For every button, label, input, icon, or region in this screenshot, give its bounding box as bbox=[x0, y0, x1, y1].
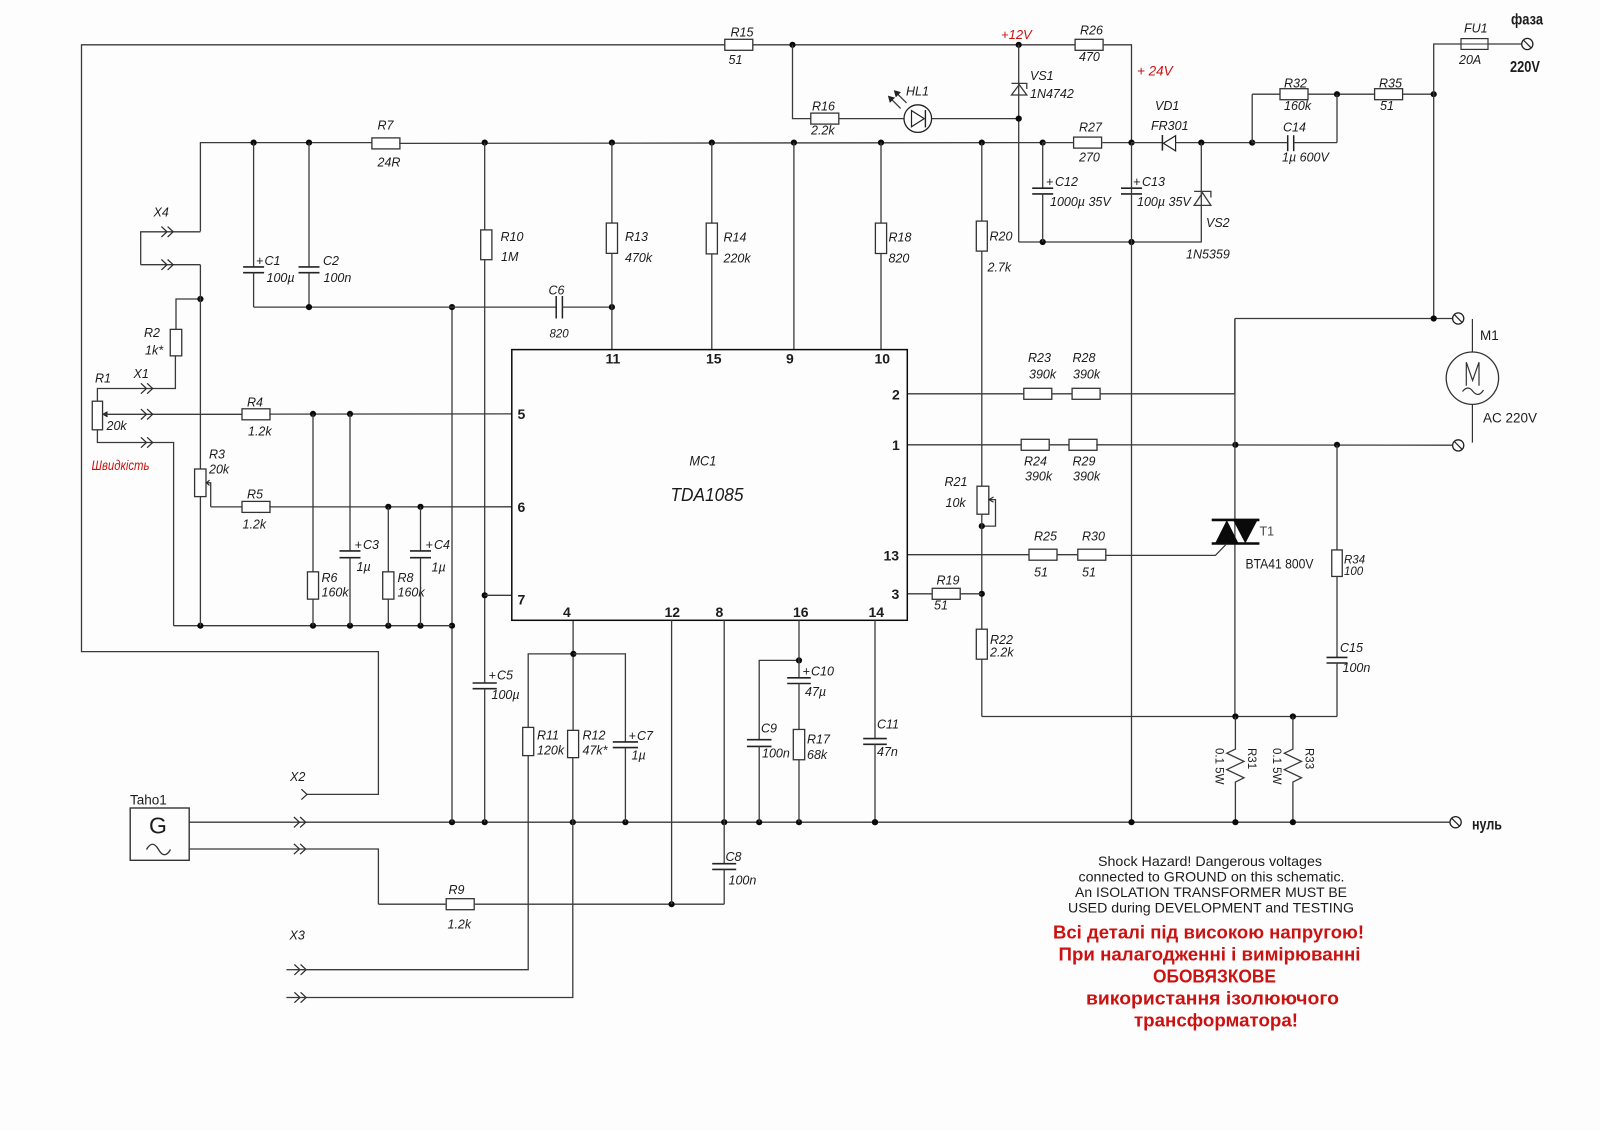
svg-text:USED during DEVELOPMENT and TE: USED during DEVELOPMENT and TESTING bbox=[1068, 900, 1354, 916]
svg-text:C2: C2 bbox=[323, 254, 339, 268]
svg-text:Taho1: Taho1 bbox=[130, 793, 167, 808]
svg-text:R35: R35 bbox=[1379, 77, 1402, 91]
wire R10 column top bbox=[484, 143, 486, 230]
connector R1 tap arrows bbox=[141, 409, 153, 419]
wire C13 long column bbox=[1131, 143, 1133, 823]
svg-text:VS2: VS2 bbox=[1206, 216, 1230, 230]
connector R1 bottom arrows bbox=[141, 437, 153, 447]
resistor R6 bbox=[307, 414, 349, 626]
svg-text:G: G bbox=[149, 813, 167, 839]
svg-text:R8: R8 bbox=[398, 571, 414, 585]
wire R12 top to pin 4 bbox=[572, 620, 574, 730]
label X2 wire bbox=[0, 0, 1, 1]
node junction R19/R22 bbox=[979, 591, 985, 597]
node rail junction R18 bbox=[878, 140, 884, 146]
connector X1 arrows bbox=[133, 367, 153, 394]
svg-text:68k: 68k bbox=[807, 748, 828, 762]
svg-text:C8: C8 bbox=[726, 850, 742, 864]
svg-text:100n: 100n bbox=[324, 271, 352, 285]
svg-text:1000µ 35V: 1000µ 35V bbox=[1050, 195, 1112, 209]
node junction C4 top bbox=[417, 504, 423, 510]
svg-text:+12V: +12V bbox=[1001, 27, 1033, 42]
capacitor C7 bbox=[613, 729, 654, 822]
resistor R12 bbox=[568, 729, 609, 758]
resistor R24 bbox=[1021, 439, 1053, 483]
svg-text:12: 12 bbox=[665, 604, 681, 620]
svg-text:120k: 120k bbox=[537, 744, 565, 758]
svg-text:5: 5 bbox=[518, 406, 526, 422]
svg-text:+: + bbox=[426, 538, 433, 552]
wire C9 top bracket bbox=[759, 660, 799, 739]
wire pin 8 column bbox=[723, 620, 725, 822]
node нуль junction x452 bbox=[449, 819, 455, 825]
svg-text:220V: 220V bbox=[1510, 59, 1541, 76]
svg-text:MC1: MC1 bbox=[689, 452, 716, 468]
svg-text:T1: T1 bbox=[1260, 525, 1275, 539]
svg-text:R9: R9 bbox=[449, 883, 465, 897]
svg-text:R23: R23 bbox=[1028, 351, 1051, 365]
svg-text:При налагодженні і вимірюванні: При налагодженні і вимірюванні bbox=[1059, 945, 1361, 965]
svg-text:Швидкість: Швидкість bbox=[92, 457, 150, 473]
svg-text:VD1: VD1 bbox=[1155, 99, 1179, 113]
wire VS2 column bbox=[1200, 143, 1202, 242]
svg-text:An ISOLATION TRANSFORMER MUST: An ISOLATION TRANSFORMER MUST BE bbox=[1075, 884, 1347, 900]
wire R3 tap to R5 bbox=[211, 506, 243, 508]
svg-text:R15: R15 bbox=[731, 26, 754, 40]
wire R11 top to pin4 row bbox=[528, 654, 573, 728]
svg-text:M1: M1 bbox=[1480, 328, 1499, 343]
wire R2 top lead bbox=[176, 299, 200, 329]
capacitor C9 bbox=[747, 722, 790, 823]
connector X4 arrows row2 bbox=[161, 260, 173, 270]
resistor R28 bbox=[1072, 351, 1101, 399]
label Швидкість bbox=[92, 457, 150, 473]
capacitor C1 bbox=[243, 143, 294, 308]
svg-text:11: 11 bbox=[606, 351, 621, 367]
connector X2 arrow bbox=[289, 770, 307, 800]
wire X3 row2 to R12 bbox=[294, 758, 573, 998]
node junction +12V bbox=[1016, 42, 1022, 48]
wire R19 to R22 column bbox=[961, 593, 982, 595]
resistor R23 bbox=[1024, 351, 1057, 399]
node rail junction R13 bbox=[609, 140, 615, 146]
svg-text:R19: R19 bbox=[937, 574, 960, 588]
svg-text:100µ: 100µ bbox=[267, 271, 295, 285]
svg-text:+: + bbox=[256, 254, 263, 268]
node row625 junction R6 bbox=[310, 623, 316, 629]
node junction R2/R3 column bbox=[197, 296, 203, 302]
node rail junction R20 bbox=[979, 140, 985, 146]
resistor R9 bbox=[446, 883, 474, 932]
node junction C2 bottom bbox=[306, 304, 312, 310]
svg-text:51: 51 bbox=[729, 53, 743, 67]
resistor R8 bbox=[383, 507, 426, 626]
svg-text:1µ 600V: 1µ 600V bbox=[1282, 151, 1330, 165]
svg-text:1µ: 1µ bbox=[632, 749, 646, 763]
wire R34 column top bbox=[1336, 445, 1338, 550]
svg-text:160k: 160k bbox=[322, 586, 350, 600]
svg-text:1M: 1M bbox=[501, 250, 519, 264]
wire R28 to motor column bbox=[1100, 319, 1235, 394]
wire X2 net: left border frame bbox=[82, 45, 725, 795]
svg-text:R28: R28 bbox=[1073, 351, 1096, 365]
svg-text:R10: R10 bbox=[501, 230, 524, 244]
svg-text:220k: 220k bbox=[723, 252, 752, 266]
svg-text:+: + bbox=[355, 538, 362, 552]
svg-text:C15: C15 bbox=[1340, 641, 1363, 655]
svg-text:використання ізолюючого: використання ізолюючого bbox=[1086, 989, 1339, 1009]
svg-text:820: 820 bbox=[889, 252, 910, 266]
node нуль junction C7 bbox=[622, 819, 628, 825]
svg-text:390k: 390k bbox=[1073, 368, 1101, 382]
wire pin 13 row bbox=[907, 554, 1029, 556]
svg-text:R29: R29 bbox=[1073, 455, 1096, 469]
wire R21 to R19 junction bbox=[981, 514, 983, 629]
wire C1-C2 bottom row to C6 bbox=[254, 306, 557, 308]
svg-text:+: + bbox=[629, 729, 636, 743]
node +12V label bbox=[1001, 27, 1033, 42]
svg-text:100: 100 bbox=[1344, 566, 1364, 578]
wire HL1 to VS1 column bbox=[932, 118, 1019, 120]
svg-text:51: 51 bbox=[934, 599, 948, 613]
resistor R7 bbox=[372, 119, 401, 170]
svg-text:51: 51 bbox=[1380, 99, 1394, 113]
wire R16 to HL1 bbox=[839, 118, 905, 120]
svg-text:1µ: 1µ bbox=[432, 561, 446, 575]
svg-text:AC 220V: AC 220V bbox=[1483, 411, 1537, 426]
wire R20 to R21 bbox=[981, 251, 983, 487]
svg-text:R16: R16 bbox=[812, 100, 835, 114]
node junction triac/pin1 bbox=[1232, 442, 1238, 448]
node junction нуль/pin14 bbox=[872, 819, 878, 825]
svg-text:1.2k: 1.2k bbox=[243, 518, 267, 532]
wire main rail right segment bbox=[399, 142, 1042, 145]
terminal фаза bbox=[1522, 38, 1533, 49]
motor M1 bbox=[1446, 319, 1499, 443]
terminal нуль bbox=[1450, 817, 1461, 828]
svg-text:R14: R14 bbox=[724, 231, 747, 245]
svg-text:100n: 100n bbox=[1343, 661, 1371, 675]
node junction C13 bottom bbox=[1128, 239, 1134, 245]
capacitor C14 bbox=[1252, 94, 1337, 164]
wire VS1 column bbox=[1018, 45, 1020, 242]
capacitor C2 bbox=[299, 143, 352, 308]
svg-text:160k: 160k bbox=[398, 586, 426, 600]
wire R9 to C8 bottom bbox=[475, 903, 724, 905]
svg-text:R27: R27 bbox=[1079, 121, 1103, 135]
zener VS1 bbox=[1012, 69, 1074, 101]
resistor R30 bbox=[1078, 530, 1106, 580]
wire pin 2 row bbox=[907, 393, 1023, 395]
wire R27 to C13 column bbox=[1102, 142, 1131, 144]
label AC 220V bbox=[1483, 411, 1537, 426]
connector X3 arrow 2 bbox=[286, 992, 306, 1002]
node нуль junction pin8 bbox=[721, 819, 727, 825]
svg-text:R2: R2 bbox=[144, 326, 160, 340]
svg-text:100µ 35V: 100µ 35V bbox=[1137, 195, 1192, 209]
node junction C6/R13 column bbox=[609, 304, 615, 310]
svg-text:C13: C13 bbox=[1142, 175, 1165, 189]
connector X3 arrow 1 bbox=[286, 965, 306, 975]
wire pin 7 stub bbox=[485, 594, 512, 596]
resistor R10 bbox=[481, 230, 524, 264]
svg-text:6: 6 bbox=[518, 499, 526, 515]
svg-text:TDA1085: TDA1085 bbox=[671, 484, 745, 505]
svg-text:ОБОВЯЗКОВЕ: ОБОВЯЗКОВЕ bbox=[1153, 967, 1276, 987]
wire +12V/+24V bottom rail y242 bbox=[1019, 241, 1202, 243]
svg-text:13: 13 bbox=[884, 548, 900, 564]
svg-text:FR301: FR301 bbox=[1151, 119, 1189, 133]
svg-text:+ 24V: + 24V bbox=[1137, 64, 1175, 79]
generator Taho1 bbox=[130, 793, 189, 861]
wire main rail left segment bbox=[200, 143, 372, 232]
capacitor C6 bbox=[549, 284, 612, 341]
resistor R4 bbox=[242, 396, 272, 439]
wire reference column x452 bbox=[451, 307, 453, 822]
svg-text:16: 16 bbox=[793, 604, 809, 620]
svg-text:9: 9 bbox=[786, 351, 794, 367]
svg-text:100µ: 100µ bbox=[492, 688, 520, 702]
node junction pin 7 bbox=[482, 592, 488, 598]
node junction C3 top bbox=[347, 411, 353, 417]
resistor R18 bbox=[875, 143, 911, 350]
svg-text:Shock Hazard! Dangerous voltag: Shock Hazard! Dangerous voltages bbox=[1098, 853, 1322, 869]
node row625 junction R8 bbox=[385, 623, 391, 629]
wire R20 column top bbox=[981, 143, 983, 222]
svg-text:C11: C11 bbox=[877, 718, 899, 732]
label X4 bbox=[153, 206, 169, 220]
wire R17 to нуль row bbox=[798, 760, 800, 823]
wire C15 to bottom row bbox=[1336, 663, 1338, 717]
wire R1 tap row (pin5 net left) bbox=[103, 413, 243, 415]
node junction pin4 row bbox=[570, 651, 576, 657]
wire tacho to R9 bbox=[378, 903, 445, 905]
svg-text:R13: R13 bbox=[625, 230, 648, 244]
svg-text:1k*: 1k* bbox=[145, 344, 164, 358]
node нуль junction C13col bbox=[1128, 819, 1134, 825]
svg-text:2: 2 bbox=[892, 387, 900, 403]
node junction x452/C6 row bbox=[449, 304, 455, 310]
resistor R31 0.1 5W bbox=[1213, 717, 1258, 823]
svg-text:7: 7 bbox=[518, 592, 526, 608]
svg-text:C7: C7 bbox=[637, 729, 654, 743]
svg-text:X4: X4 bbox=[153, 206, 169, 220]
svg-text:20A: 20A bbox=[1458, 53, 1481, 67]
svg-text:8: 8 bbox=[716, 604, 724, 620]
svg-text:R26: R26 bbox=[1080, 24, 1103, 38]
label нуль bbox=[1472, 817, 1502, 834]
svg-text:14: 14 bbox=[869, 604, 885, 620]
node junction C9/pin16 bbox=[796, 657, 802, 663]
node нуль junction C11 bbox=[872, 819, 878, 825]
svg-text:R4: R4 bbox=[247, 396, 263, 410]
wire fuse to phase terminal bbox=[1488, 43, 1522, 45]
svg-text:C9: C9 bbox=[761, 722, 777, 736]
svg-text:1.2k: 1.2k bbox=[448, 918, 472, 932]
node rail junction C1 bbox=[251, 140, 257, 146]
ic MC1 TDA1085 bbox=[512, 350, 908, 621]
capacitor C5 bbox=[473, 669, 520, 823]
resistor R19 bbox=[932, 574, 960, 613]
wire X4 pin2 row bbox=[141, 264, 201, 266]
svg-text:390k: 390k bbox=[1073, 470, 1101, 484]
svg-text:24R: 24R bbox=[377, 156, 401, 170]
capacitor C15 bbox=[1327, 641, 1371, 675]
resistor R17 bbox=[793, 729, 831, 762]
svg-text:R32: R32 bbox=[1284, 77, 1307, 91]
node junction x452/row625 bbox=[449, 623, 455, 629]
wire C12 node to R27 bbox=[1043, 142, 1073, 144]
svg-text:VS1: VS1 bbox=[1030, 69, 1054, 83]
svg-text:270: 270 bbox=[1078, 151, 1100, 165]
wire C10 to R17 bbox=[798, 684, 800, 730]
resistor R5 bbox=[242, 488, 270, 532]
wire pin 1 row right bbox=[1096, 444, 1452, 446]
wire R26 right to corner down bbox=[1104, 45, 1132, 143]
svg-text:R24: R24 bbox=[1024, 455, 1047, 469]
wire pin 3 row bbox=[907, 593, 932, 595]
svg-text:R30: R30 bbox=[1082, 530, 1105, 544]
svg-text:+: + bbox=[1133, 175, 1140, 189]
svg-text:51: 51 bbox=[1034, 566, 1048, 580]
svg-text:0.1 5W: 0.1 5W bbox=[1213, 748, 1225, 785]
node junction R35/fuse column bbox=[1431, 91, 1437, 97]
wire pin 16 column top bbox=[798, 620, 800, 677]
resistor R22 bbox=[976, 629, 1014, 659]
svg-text:X3: X3 bbox=[289, 929, 305, 943]
svg-text:BTA41 800V: BTA41 800V bbox=[1246, 557, 1314, 572]
svg-text:C6: C6 bbox=[549, 284, 565, 298]
wire R5 to pin 6 bbox=[269, 506, 512, 508]
node junction R27/C13 bbox=[1128, 140, 1134, 146]
potentiometer R1 bbox=[92, 372, 127, 434]
resistor R27 bbox=[1074, 121, 1103, 165]
svg-text:1N4742: 1N4742 bbox=[1030, 87, 1074, 101]
svg-text:трансформатора!: трансформатора! bbox=[1134, 1011, 1298, 1031]
svg-text:R3: R3 bbox=[209, 448, 225, 462]
node junction R6 top bbox=[310, 411, 316, 417]
label red warning bbox=[1053, 923, 1364, 1031]
node +24V label bbox=[1137, 64, 1175, 79]
svg-text:X2: X2 bbox=[289, 770, 305, 784]
wire motor top row bbox=[1235, 318, 1453, 320]
capacitor C10 bbox=[787, 665, 834, 700]
wire R15 junction down to R16 bbox=[793, 45, 812, 119]
svg-text:R1: R1 bbox=[95, 372, 111, 386]
svg-text:160k: 160k bbox=[1284, 99, 1312, 113]
node row625 junction C4 bbox=[417, 623, 423, 629]
node нуль junction R33 bbox=[1290, 819, 1296, 825]
svg-text:R33: R33 bbox=[1303, 748, 1315, 769]
wire R3 to row625 bbox=[199, 497, 201, 626]
resistor R35 bbox=[1375, 77, 1403, 114]
label X3 bbox=[289, 929, 305, 943]
wire R1 bottom lead bbox=[97, 430, 173, 626]
capacitor C12 bbox=[1032, 143, 1112, 242]
svg-text:1: 1 bbox=[892, 437, 900, 453]
node junction HL1/VS1 bbox=[1016, 116, 1022, 122]
svg-text:R18: R18 bbox=[889, 231, 912, 245]
svg-text:820: 820 bbox=[550, 329, 570, 341]
wire X4 pin1 row bbox=[141, 232, 201, 265]
node junction R32/C14 right bbox=[1334, 91, 1340, 97]
resistor R34 bbox=[1332, 550, 1365, 578]
svg-text:51: 51 bbox=[1082, 566, 1096, 580]
wire C13 node to VD1 bbox=[1132, 142, 1163, 144]
resistor R16 bbox=[810, 100, 839, 138]
node junction R8 top bbox=[385, 504, 391, 510]
resistor R33 0.1 5W bbox=[1270, 717, 1315, 823]
wire C14 bracket left bbox=[1251, 94, 1253, 142]
svg-text:R6: R6 bbox=[322, 571, 338, 585]
svg-text:390k: 390k bbox=[1025, 470, 1053, 484]
svg-text:C5: C5 bbox=[497, 669, 513, 683]
wire snubber bottom row bbox=[982, 716, 1337, 718]
node junction R34/pin1 bbox=[1334, 442, 1340, 448]
svg-text:FU1: FU1 bbox=[1464, 22, 1488, 36]
wire R24 to R29 bbox=[1049, 444, 1070, 446]
svg-text:Всі деталі під високою напруго: Всі деталі під високою напругою! bbox=[1053, 923, 1364, 943]
svg-text:470: 470 bbox=[1079, 50, 1100, 64]
label фаза bbox=[1511, 12, 1543, 29]
svg-text:+: + bbox=[489, 669, 496, 683]
svg-text:C14: C14 bbox=[1283, 121, 1306, 135]
zener VS2 bbox=[1186, 191, 1230, 261]
wire R32 to R35 bbox=[1308, 93, 1375, 95]
node нуль junction R12 bbox=[570, 819, 576, 825]
svg-text:20k: 20k bbox=[106, 419, 128, 433]
wire X4 to R3 bbox=[199, 265, 201, 469]
svg-text:1N5359: 1N5359 bbox=[1186, 248, 1230, 262]
triac T1 BTA41 bbox=[1212, 520, 1314, 572]
wire R4 to pin 5 bbox=[269, 413, 512, 415]
svg-text:C4: C4 bbox=[434, 538, 450, 552]
svg-text:20k: 20k bbox=[208, 463, 230, 477]
wire +12V top rail (R15 right to R26 left) bbox=[753, 44, 1075, 46]
svg-text:X1: X1 bbox=[133, 367, 149, 381]
svg-text:C10: C10 bbox=[811, 665, 834, 679]
svg-text:R20: R20 bbox=[990, 230, 1013, 244]
wire нуль row bbox=[189, 821, 1450, 823]
wire pin 9 column bbox=[793, 143, 795, 350]
svg-text:390k: 390k bbox=[1029, 368, 1057, 382]
wire R10 to C5 bbox=[484, 260, 486, 683]
resistor R2 bbox=[144, 326, 182, 358]
led HL1 bbox=[889, 85, 932, 133]
resistor R14 bbox=[706, 143, 751, 350]
svg-text:2.7k: 2.7k bbox=[987, 261, 1012, 275]
wire pin 1 row left bbox=[907, 444, 1021, 446]
node junction pin12/R9 row bbox=[669, 901, 675, 907]
wire R35 to fuse column bbox=[1403, 93, 1434, 95]
resistor R32 bbox=[1280, 77, 1312, 114]
svg-text:4: 4 bbox=[563, 604, 571, 620]
svg-text:R7: R7 bbox=[378, 119, 395, 133]
connector X4 arrows row1 bbox=[161, 227, 173, 237]
resistor R15 bbox=[725, 26, 754, 68]
label shock hazard warning bbox=[1068, 853, 1354, 916]
resistor R26 bbox=[1075, 24, 1103, 65]
connector tacho arrows bbox=[294, 817, 306, 854]
wire pin 12 column bbox=[671, 620, 673, 904]
node junction VS2 bbox=[1198, 140, 1204, 146]
wire X3 row1 to R11 bbox=[294, 756, 528, 970]
node нуль junction C10 bbox=[796, 819, 802, 825]
wire bracket to R32 bbox=[1252, 93, 1280, 95]
node нуль junction C9 bbox=[756, 819, 762, 825]
node junction C12 bottom bbox=[1040, 239, 1046, 245]
svg-text:10k: 10k bbox=[946, 496, 967, 510]
